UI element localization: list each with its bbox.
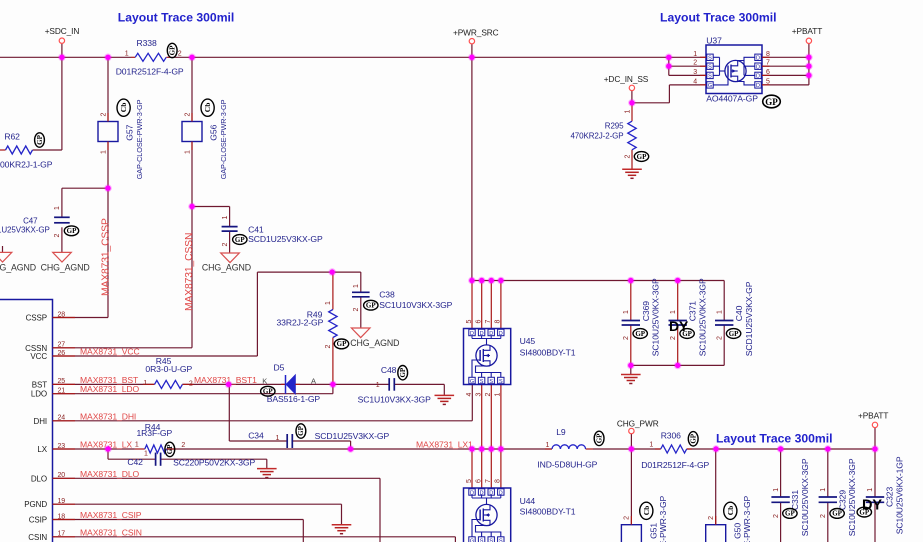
junction PWR rail U45 pin7 bbox=[488, 277, 496, 285]
junction VCC/R49 node bbox=[328, 268, 336, 276]
capacitor C371 bbox=[669, 320, 687, 322]
svg-text:5: 5 bbox=[766, 78, 770, 85]
svg-text:20: 20 bbox=[58, 472, 66, 479]
junction cap rail C369 gnd bbox=[627, 362, 635, 370]
wire +PWR_SRC vertical bbox=[471, 44, 473, 281]
svg-text:MAX8731_CSSN: MAX8731_CSSN bbox=[184, 233, 195, 311]
svg-text:LDO: LDO bbox=[31, 390, 47, 399]
wire LDO node to C48 and gnd bbox=[333, 383, 389, 385]
svg-text:S: S bbox=[499, 379, 503, 385]
junction C41 branch node bbox=[188, 203, 196, 211]
wire DHI row bbox=[53, 420, 473, 422]
svg-text:GP: GP bbox=[595, 433, 603, 443]
wire G51 vertical bbox=[630, 449, 632, 525]
svg-text:1: 1 bbox=[144, 451, 148, 458]
svg-text:GP: GP bbox=[263, 388, 273, 396]
junction U37 pin2 tie bbox=[665, 62, 673, 70]
svg-text:C42: C42 bbox=[127, 457, 143, 467]
svg-text:Cb: Cb bbox=[119, 103, 128, 113]
marker ellipse R44 bbox=[165, 442, 175, 456]
wire DLO row bbox=[53, 477, 381, 479]
junction U37 pin1 tie bbox=[665, 54, 673, 62]
svg-text:5: 5 bbox=[466, 479, 473, 483]
svg-text:19: 19 bbox=[58, 498, 66, 505]
svg-text:25: 25 bbox=[58, 378, 66, 385]
gap-close G50 bbox=[706, 525, 726, 542]
capacitor C47 bbox=[54, 216, 70, 218]
svg-text:1: 1 bbox=[54, 206, 61, 210]
svg-text:1: 1 bbox=[495, 393, 502, 397]
ground CHG_AGND under C47 bbox=[53, 252, 72, 262]
svg-text:1: 1 bbox=[143, 380, 147, 387]
pin 24 DHI of MAX8731 bbox=[53, 420, 76, 422]
svg-text:C34: C34 bbox=[248, 431, 264, 441]
wire C47 branch bbox=[62, 187, 108, 189]
svg-text:23: 23 bbox=[58, 443, 66, 450]
svg-text:GP: GP bbox=[765, 97, 778, 107]
svg-text:21: 21 bbox=[58, 388, 66, 395]
svg-text:U37: U37 bbox=[706, 36, 722, 46]
capacitor C41 bbox=[222, 226, 238, 228]
svg-text:A: A bbox=[311, 377, 316, 386]
marker ellipse GP U37 bbox=[763, 95, 781, 108]
wire LDO row bbox=[53, 393, 333, 395]
svg-text:D: D bbox=[756, 56, 760, 62]
svg-text:GP: GP bbox=[635, 330, 645, 338]
marker ellipse C38 bbox=[364, 300, 378, 310]
svg-text:7: 7 bbox=[485, 479, 492, 483]
wire U45 drain stubs bbox=[471, 281, 473, 329]
junction G50 node bbox=[712, 445, 720, 453]
svg-text:2: 2 bbox=[189, 381, 193, 388]
svg-text:S: S bbox=[708, 56, 712, 62]
svg-text:D: D bbox=[756, 83, 760, 89]
svg-text:S: S bbox=[480, 379, 484, 385]
ground bars under C48 bbox=[435, 394, 455, 396]
capacitor C331 bbox=[771, 496, 789, 498]
svg-text:D5: D5 bbox=[274, 363, 285, 373]
pin 23 LX of MAX8731 bbox=[53, 448, 76, 450]
marker ellipse G57 bbox=[117, 99, 130, 116]
capacitor C323 bbox=[866, 496, 884, 498]
wire G56 vertical / CSSN bbox=[191, 57, 193, 121]
svg-text:SCD1U25V3KX-GP: SCD1U25V3KX-GP bbox=[0, 226, 50, 235]
junction +PWR_SRC on bus bbox=[468, 54, 476, 62]
resistor R338 bbox=[131, 56, 135, 58]
resistor R295 bbox=[628, 121, 636, 150]
pin 26 VCC of MAX8731 bbox=[53, 355, 76, 357]
svg-text:C41: C41 bbox=[248, 225, 264, 235]
svg-text:1: 1 bbox=[325, 301, 332, 305]
marker ellipse C329 bbox=[830, 509, 844, 519]
svg-text:C371: C371 bbox=[688, 301, 698, 321]
svg-text:2: 2 bbox=[625, 155, 632, 159]
svg-text:+SDC_IN: +SDC_IN bbox=[45, 26, 80, 36]
wire U37 right side to +PBATT bbox=[762, 56, 809, 58]
wire C38 drop bbox=[360, 272, 362, 292]
svg-text:+PBATT: +PBATT bbox=[858, 410, 888, 420]
svg-text:DY: DY bbox=[862, 498, 882, 514]
svg-text:C369: C369 bbox=[641, 301, 651, 321]
wire top bus +SDC_IN/+PWR_SRC y=57 bbox=[0, 56, 131, 58]
svg-text:SC10U25V0KX-3GP: SC10U25V0KX-3GP bbox=[697, 278, 707, 356]
wire C42 branch bbox=[107, 449, 109, 459]
ground CHG_AGND under C41 bbox=[221, 253, 240, 263]
svg-text:1: 1 bbox=[649, 442, 653, 449]
svg-text:GP: GP bbox=[36, 134, 44, 144]
junction PWR rail C371 bbox=[674, 277, 682, 285]
svg-text:2: 2 bbox=[485, 393, 492, 397]
svg-text:CSIN: CSIN bbox=[28, 533, 47, 542]
svg-text:C331: C331 bbox=[790, 490, 800, 510]
marker ellipse L9 bbox=[594, 431, 604, 445]
marker ellipse C34 bbox=[296, 424, 306, 438]
svg-text:2: 2 bbox=[325, 345, 332, 349]
svg-text:GAP-CLOSE-PWR-3-GP: GAP-CLOSE-PWR-3-GP bbox=[658, 495, 668, 542]
svg-text:1: 1 bbox=[670, 310, 677, 314]
svg-text:D: D bbox=[756, 74, 760, 80]
svg-text:2: 2 bbox=[708, 516, 715, 520]
svg-text:GP: GP bbox=[637, 153, 647, 161]
transistor U37 AO4407A-GP bbox=[706, 45, 762, 94]
junction C323/+PBATT node bbox=[871, 445, 879, 453]
svg-text:S: S bbox=[708, 65, 712, 71]
marker ellipse C41 bbox=[233, 235, 247, 245]
svg-text:SC10U25V6KX-1GP: SC10U25V6KX-1GP bbox=[894, 456, 904, 534]
svg-text:1: 1 bbox=[100, 150, 107, 154]
svg-text:5: 5 bbox=[466, 320, 473, 324]
svg-text:D01R2512F-4-GP: D01R2512F-4-GP bbox=[116, 67, 184, 77]
wire U45 source stubs to LX bbox=[481, 385, 483, 450]
svg-text:CSSP: CSSP bbox=[26, 314, 47, 323]
svg-text:6: 6 bbox=[476, 320, 483, 324]
svg-text:Layout Trace 300mil: Layout Trace 300mil bbox=[716, 432, 833, 446]
ground bars under C42 bbox=[257, 468, 277, 470]
wire PWR rail y=280.5 bbox=[472, 280, 724, 282]
wire PGND row bbox=[53, 503, 342, 505]
wire C41 branch bbox=[192, 206, 230, 208]
svg-text:GP: GP bbox=[235, 236, 245, 244]
wire G50 vertical bbox=[715, 449, 717, 525]
svg-text:BST: BST bbox=[32, 380, 47, 389]
svg-text:1: 1 bbox=[184, 150, 191, 154]
wire G57 vertical / CSSP bbox=[107, 57, 109, 121]
junction +DC_IN_SS node bbox=[628, 99, 636, 107]
svg-text:2: 2 bbox=[623, 336, 630, 340]
ground CHG_AGND far left (clipped) bbox=[2, 246, 4, 252]
svg-text:27: 27 bbox=[58, 342, 66, 349]
junction +PBATT pin7 bbox=[805, 62, 813, 70]
svg-text:MAX8731_DHI: MAX8731_DHI bbox=[80, 411, 136, 421]
svg-text:LX: LX bbox=[37, 445, 47, 454]
svg-text:C47: C47 bbox=[23, 217, 38, 226]
svg-text:6: 6 bbox=[766, 69, 770, 76]
wire C331 vertical bbox=[780, 449, 782, 497]
capacitor C329 bbox=[819, 496, 837, 498]
svg-text:SI4800BDY-T1: SI4800BDY-T1 bbox=[520, 348, 576, 358]
resistor R49 bbox=[329, 310, 337, 338]
pin 20 DLO of MAX8731 bbox=[53, 477, 76, 479]
junction LX/C42 node bbox=[104, 445, 112, 453]
svg-text:G51: G51 bbox=[649, 523, 659, 539]
marker ellipse C48 bbox=[398, 366, 408, 380]
svg-text:1: 1 bbox=[125, 51, 129, 58]
marker ellipse R338 bbox=[167, 43, 177, 57]
svg-text:2: 2 bbox=[181, 442, 185, 449]
wire R49 to LDO node bbox=[332, 272, 334, 309]
capacitor C34 bbox=[286, 434, 288, 448]
svg-text:0R3-0-U-GP: 0R3-0-U-GP bbox=[145, 364, 192, 374]
junction G56 on bus bbox=[188, 54, 196, 62]
junction PWR rail U45 pin6 bbox=[478, 277, 486, 285]
svg-text:+DC_IN_SS: +DC_IN_SS bbox=[604, 74, 649, 84]
junction PWR rail C369 bbox=[627, 277, 635, 285]
svg-text:MAX8731_CSIN: MAX8731_CSIN bbox=[80, 527, 142, 537]
svg-text:SC10U25V0KX-3GP: SC10U25V0KX-3GP bbox=[847, 458, 857, 536]
wire C323 vertical / +PBATT stub bbox=[874, 428, 876, 449]
svg-text:R338: R338 bbox=[137, 38, 157, 48]
marker ellipse R295 bbox=[634, 152, 648, 162]
marker ellipse D5 bbox=[261, 386, 275, 396]
resistor R62 bbox=[0, 149, 6, 151]
svg-text:G: G bbox=[470, 538, 474, 542]
svg-text:3: 3 bbox=[693, 69, 697, 76]
svg-text:G57: G57 bbox=[124, 124, 134, 140]
svg-text:1: 1 bbox=[820, 488, 827, 492]
svg-text:1: 1 bbox=[773, 488, 780, 492]
gap-close G56 bbox=[182, 122, 202, 142]
marker ellipse R49 bbox=[334, 339, 348, 349]
svg-text:CHG_AGND: CHG_AGND bbox=[202, 263, 251, 273]
svg-text:D: D bbox=[756, 65, 760, 71]
svg-text:GP: GP bbox=[832, 510, 842, 518]
svg-text:+PBATT: +PBATT bbox=[792, 26, 822, 36]
svg-text:2: 2 bbox=[222, 243, 229, 247]
marker ellipse C323 bbox=[857, 507, 871, 517]
svg-text:MAX8731_VCC: MAX8731_VCC bbox=[80, 347, 140, 357]
marker ellipse R306 bbox=[688, 432, 698, 446]
marker ellipse G50 bbox=[724, 502, 737, 519]
inductor L9 bbox=[545, 448, 552, 450]
svg-text:R295: R295 bbox=[605, 122, 624, 131]
svg-text:SI4800BDY-T1: SI4800BDY-T1 bbox=[520, 507, 576, 517]
svg-text:1: 1 bbox=[135, 442, 139, 449]
svg-text:2: 2 bbox=[178, 51, 182, 58]
junction C34/LX node bbox=[347, 445, 355, 453]
svg-text:GP: GP bbox=[67, 227, 77, 235]
svg-text:G: G bbox=[470, 379, 474, 385]
marker ellipse G56 bbox=[201, 99, 214, 116]
wire +SDC_IN vertical to R62 bbox=[61, 43, 63, 150]
svg-text:2: 2 bbox=[693, 60, 697, 67]
svg-text:BAS516-1-GP: BAS516-1-GP bbox=[267, 394, 321, 404]
svg-text:1: 1 bbox=[867, 488, 874, 492]
svg-text:2: 2 bbox=[670, 336, 677, 340]
svg-text:Layout Trace 300mil: Layout Trace 300mil bbox=[660, 11, 777, 25]
svg-text:1: 1 bbox=[625, 110, 632, 114]
junction LDO/D5/R49 node bbox=[329, 381, 337, 389]
svg-text:MAX8731_LX1: MAX8731_LX1 bbox=[416, 440, 473, 450]
wire C369 ground stub bbox=[630, 365, 632, 374]
svg-text:2: 2 bbox=[773, 514, 780, 518]
marker ellipse C331 bbox=[783, 509, 797, 519]
wire LX row bbox=[53, 448, 135, 450]
junction PWR rail U45 pin5 bbox=[468, 277, 476, 285]
svg-text:G: G bbox=[708, 83, 712, 89]
pin 19 PGND of MAX8731 bbox=[53, 503, 76, 505]
svg-text:1: 1 bbox=[276, 435, 280, 442]
svg-text:GAP-CLOSE-PWR-3-GP: GAP-CLOSE-PWR-3-GP bbox=[135, 99, 144, 179]
transistor U44 SI4800BDY-T1 bbox=[464, 488, 511, 542]
svg-text:SCD1U25V3KX-GP: SCD1U25V3KX-GP bbox=[315, 431, 390, 441]
marker ellipse C47 bbox=[64, 226, 78, 236]
ground CHG_AGND under C38 bbox=[351, 328, 370, 338]
svg-text:MAX8731_LDO: MAX8731_LDO bbox=[80, 384, 140, 394]
ground bars PGND bbox=[332, 524, 352, 526]
svg-text:1: 1 bbox=[222, 216, 229, 220]
svg-text:2: 2 bbox=[624, 516, 631, 520]
svg-text:R62: R62 bbox=[4, 132, 20, 142]
svg-text:GP: GP bbox=[729, 330, 739, 338]
svg-text:GAP-CLOSE-PWR-3-GP: GAP-CLOSE-PWR-3-GP bbox=[742, 495, 752, 542]
IC MAX8731 box (partial) bbox=[0, 300, 53, 542]
svg-text:8: 8 bbox=[495, 320, 502, 324]
svg-text:00KR2J-1-GP: 00KR2J-1-GP bbox=[0, 160, 53, 170]
svg-text:GP: GP bbox=[785, 510, 795, 518]
resistor R44 bbox=[135, 448, 145, 450]
svg-text:GP: GP bbox=[297, 425, 305, 435]
junction LX U44 pin7 bbox=[488, 445, 496, 453]
svg-text:AO4407A-GP: AO4407A-GP bbox=[706, 94, 758, 104]
capacitor C38 bbox=[352, 291, 370, 293]
capacitor C40 bbox=[715, 320, 733, 322]
svg-text:24: 24 bbox=[58, 415, 66, 422]
junction +SDC_IN on bus bbox=[58, 54, 66, 62]
svg-text:GP: GP bbox=[690, 433, 698, 443]
marker ellipse G51 bbox=[640, 502, 653, 519]
marker ellipse C369 bbox=[633, 329, 647, 339]
svg-text:SC1U10V3KX-3GP: SC1U10V3KX-3GP bbox=[358, 394, 431, 404]
svg-text:SC10U25V0KX-3GP: SC10U25V0KX-3GP bbox=[651, 278, 661, 356]
svg-text:R306: R306 bbox=[661, 431, 681, 441]
junction PWR rail U45 pin8 bbox=[497, 277, 505, 285]
svg-text:4: 4 bbox=[693, 78, 697, 85]
wire C40 stubs bbox=[723, 281, 725, 321]
svg-text:GAP-CLOSE-PWR-3-GP: GAP-CLOSE-PWR-3-GP bbox=[219, 99, 228, 179]
svg-text:S: S bbox=[499, 538, 503, 542]
svg-text:1: 1 bbox=[546, 442, 550, 449]
pin 27 CSSN of MAX8731 bbox=[53, 347, 76, 349]
svg-text:2: 2 bbox=[820, 514, 827, 518]
svg-text:VCC: VCC bbox=[30, 352, 47, 361]
svg-text:2: 2 bbox=[353, 308, 360, 312]
svg-text:8: 8 bbox=[495, 479, 502, 483]
capacitor C48 bbox=[388, 378, 390, 391]
svg-text:17: 17 bbox=[58, 531, 66, 538]
svg-text:C48: C48 bbox=[381, 365, 397, 375]
junction +PBATT pin8 bbox=[805, 54, 813, 62]
wire C371 stubs bbox=[677, 281, 679, 321]
svg-text:SC220P50V2KX-3GP: SC220P50V2KX-3GP bbox=[173, 458, 255, 468]
pin 28 CSSP of MAX8731 bbox=[53, 317, 76, 319]
svg-text:MAX8731_CSIP: MAX8731_CSIP bbox=[80, 510, 142, 520]
svg-text:1R3F-GP: 1R3F-GP bbox=[137, 428, 173, 438]
wire U44 drain stubs from LX bbox=[471, 449, 473, 488]
svg-text:18: 18 bbox=[58, 513, 66, 520]
svg-text:S: S bbox=[489, 538, 493, 542]
wire BST1 to C34 bbox=[228, 384, 230, 441]
junction C47 branch node bbox=[104, 184, 112, 192]
ground bars under C369 bbox=[621, 374, 641, 376]
svg-text:GP: GP bbox=[166, 444, 174, 454]
svg-text:C40: C40 bbox=[734, 305, 744, 321]
svg-text:DY: DY bbox=[669, 318, 689, 334]
svg-text:IND-5D8UH-GP: IND-5D8UH-GP bbox=[537, 460, 597, 470]
junction +PBATT pin6 bbox=[805, 72, 813, 80]
wire VCC loop bbox=[53, 355, 258, 357]
svg-text:CHG_AGND: CHG_AGND bbox=[0, 262, 36, 272]
svg-text:G50: G50 bbox=[733, 523, 743, 539]
svg-text:PGND: PGND bbox=[24, 500, 47, 509]
gap-close G57 bbox=[98, 122, 118, 142]
svg-text:DLO: DLO bbox=[31, 474, 47, 483]
svg-text:SCD1U25V3KX-GP: SCD1U25V3KX-GP bbox=[248, 234, 323, 244]
svg-text:1: 1 bbox=[623, 310, 630, 314]
marker ellipse C40 bbox=[726, 329, 740, 339]
junction LX U44 pin6 bbox=[478, 445, 486, 453]
svg-text:Cb: Cb bbox=[642, 506, 651, 516]
svg-text:GP: GP bbox=[399, 367, 407, 377]
svg-text:2: 2 bbox=[716, 336, 723, 340]
junction cap rail C371 bbox=[674, 362, 682, 370]
pin 25 BST of MAX8731 bbox=[53, 383, 76, 385]
svg-text:S: S bbox=[489, 379, 493, 385]
svg-text:7: 7 bbox=[485, 320, 492, 324]
svg-text:K: K bbox=[262, 377, 267, 386]
svg-text:2: 2 bbox=[54, 234, 61, 238]
wire R295 to ground bbox=[631, 103, 633, 121]
wire C369 stubs bbox=[630, 281, 632, 321]
svg-text:U44: U44 bbox=[520, 496, 536, 506]
resistor R306 bbox=[655, 448, 661, 450]
capacitor C369 bbox=[622, 320, 640, 322]
svg-text:SCD1U25V3KX-GP: SCD1U25V3KX-GP bbox=[744, 281, 754, 356]
svg-text:1: 1 bbox=[693, 51, 697, 58]
svg-text:2: 2 bbox=[184, 113, 191, 117]
svg-text:D01R2512F-4-GP: D01R2512F-4-GP bbox=[641, 460, 709, 470]
svg-text:Cb: Cb bbox=[726, 506, 735, 516]
svg-text:C38: C38 bbox=[379, 290, 395, 300]
svg-text:470KR2J-2-GP: 470KR2J-2-GP bbox=[570, 132, 623, 141]
svg-text:Layout Trace 300mil: Layout Trace 300mil bbox=[118, 11, 235, 25]
svg-text:8: 8 bbox=[766, 51, 770, 58]
svg-text:S: S bbox=[708, 74, 712, 80]
pin 21 LDO of MAX8731 bbox=[53, 393, 76, 395]
svg-text:+PWR_SRC: +PWR_SRC bbox=[453, 28, 499, 38]
svg-text:3: 3 bbox=[476, 393, 483, 397]
svg-text:SC10U25V0KX-3GP: SC10U25V0KX-3GP bbox=[800, 458, 810, 536]
svg-text:C323: C323 bbox=[885, 487, 895, 507]
svg-text:MAX8731_DLO: MAX8731_DLO bbox=[80, 469, 140, 479]
junction LX U44 pin5 bbox=[468, 445, 476, 453]
wire CSIP row bbox=[53, 519, 304, 521]
svg-text:DHI: DHI bbox=[34, 417, 47, 426]
pin 17 CSIN of MAX8731 bbox=[53, 536, 76, 538]
transistor U45 SI4800BDY-T1 bbox=[464, 329, 511, 385]
svg-text:33R2J-2-GP: 33R2J-2-GP bbox=[277, 318, 324, 328]
marker ellipse R62 bbox=[35, 133, 45, 147]
svg-text:28: 28 bbox=[58, 311, 66, 318]
